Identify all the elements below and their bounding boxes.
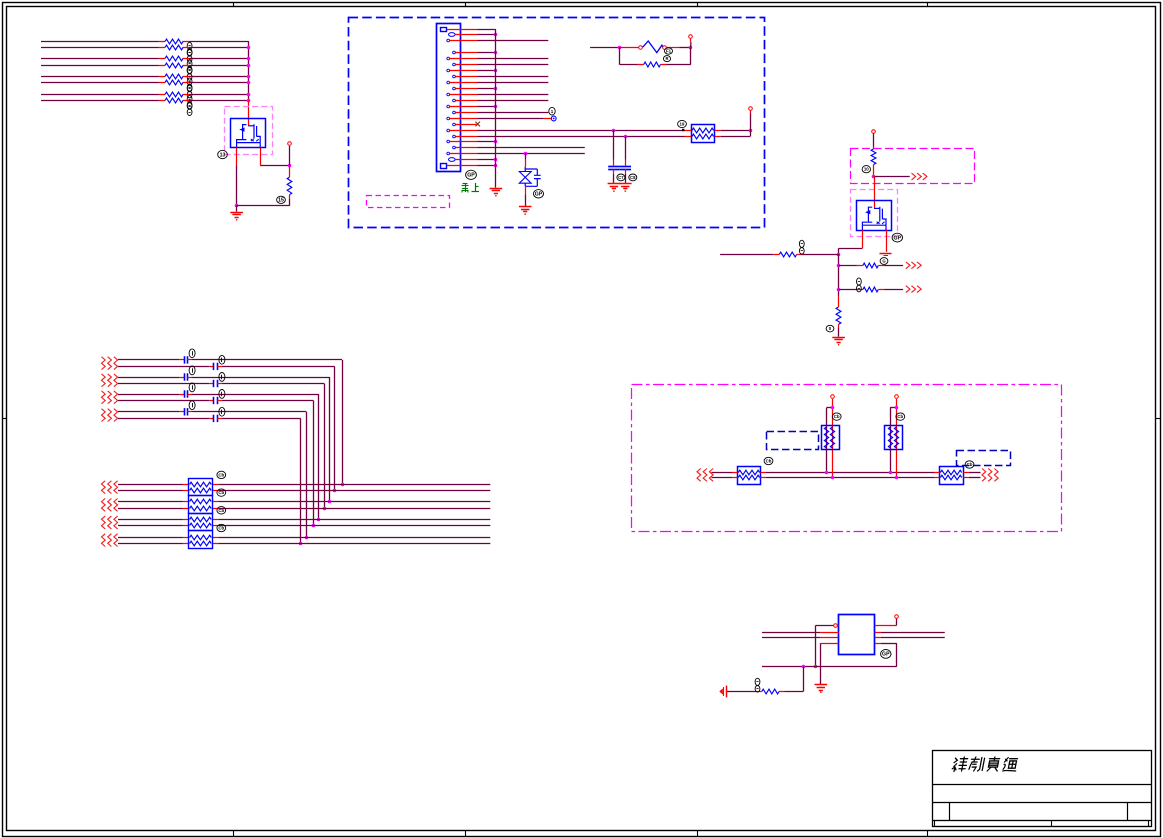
svg-text:10: 10 [864, 167, 869, 172]
svg-text:13: 13 [220, 152, 226, 158]
svg-text:GP: GP [894, 235, 902, 241]
svg-text:Cb: Cb [218, 508, 224, 513]
svg-text:Cb: Cb [218, 526, 224, 531]
svg-text:GP: GP [535, 192, 543, 198]
svg-text:F1: F1 [666, 49, 672, 54]
svg-text:Cb: Cb [967, 462, 973, 467]
svg-text:Cb: Cb [218, 472, 224, 477]
svg-text:Cb: Cb [218, 490, 224, 495]
svg-text:Cb: Cb [897, 414, 903, 419]
svg-text:15: 15 [278, 198, 284, 204]
svg-text:GP: GP [467, 173, 475, 179]
svg-text:Cb: Cb [766, 459, 772, 464]
svg-text:C8: C8 [630, 175, 636, 180]
svg-text:C7: C7 [618, 175, 624, 180]
svg-text:19: 19 [680, 122, 685, 127]
svg-text:R: R [665, 56, 668, 61]
svg-text:GP: GP [882, 652, 890, 658]
svg-text:Cb: Cb [834, 414, 840, 419]
